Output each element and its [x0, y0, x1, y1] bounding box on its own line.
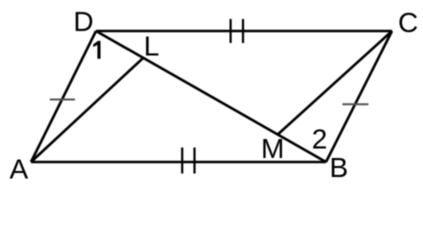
svg-text:2: 2	[312, 123, 328, 154]
double tick on AB	[182, 148, 194, 174]
svg-text:B: B	[330, 152, 349, 183]
segment AL	[31, 58, 143, 162]
side AD	[31, 31, 96, 162]
segment CM	[278, 31, 392, 135]
double tick on DC	[231, 19, 243, 43]
side DC	[96, 30, 392, 33]
angle label 1	[93, 41, 100, 59]
svg-text:L: L	[144, 31, 160, 62]
svg-text:M: M	[261, 133, 284, 164]
side AB	[31, 161, 326, 164]
single tick on AD	[50, 99, 75, 101]
single tick on BC	[342, 103, 368, 105]
svg-text:D: D	[73, 6, 93, 37]
svg-text:A: A	[10, 154, 29, 185]
diagonal DB	[96, 31, 326, 162]
svg-text:C: C	[398, 7, 418, 38]
side BC	[326, 31, 392, 162]
